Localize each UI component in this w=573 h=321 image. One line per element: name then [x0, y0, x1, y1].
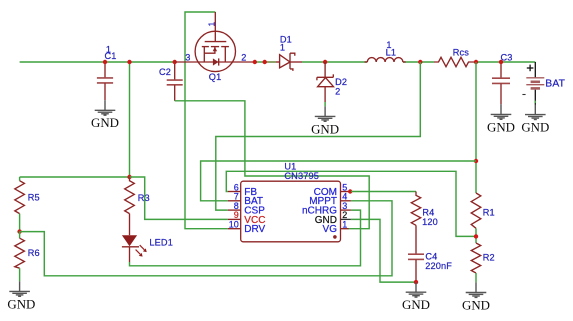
junction COM pin	[348, 189, 352, 193]
svg-text:120: 120	[422, 217, 438, 227]
Q1 main line	[175, 61, 255, 63]
wire L1 to Rcs	[403, 61, 434, 63]
junction rail L1/Rcs	[418, 60, 422, 64]
Q1 channel segments	[202, 46, 209, 48]
Q1 gate plate	[205, 41, 227, 43]
resistor R3	[125, 177, 135, 214]
diode D2 (schottky to GND)	[317, 62, 334, 106]
svg-text:Q1: Q1	[209, 72, 222, 82]
svg-text:220nF: 220nF	[425, 261, 452, 271]
pin 10 DRV	[228, 220, 266, 236]
wire LED cathode to nCHRG	[130, 210, 361, 266]
svg-text:GND: GND	[402, 298, 430, 312]
wire BAT pin to battery sense node	[201, 161, 476, 201]
LED LED1	[122, 214, 147, 262]
pin 8 CSP	[228, 201, 265, 217]
LED1 arrows	[140, 245, 145, 250]
junction R3 top	[127, 175, 131, 179]
junction rail Rcs/C3	[474, 60, 478, 64]
capacitor C2	[167, 62, 183, 101]
pin 2 GND	[315, 210, 351, 226]
wire rail down to R1 (battery sense)	[475, 62, 477, 193]
pin 7 BAT	[228, 192, 263, 208]
capacitor C3	[492, 62, 510, 104]
svg-text:R4: R4	[422, 208, 434, 218]
svg-text:GND: GND	[521, 121, 549, 135]
svg-text:3: 3	[185, 53, 190, 63]
junction dot near VG	[333, 235, 337, 239]
svg-text:CN3795: CN3795	[284, 171, 319, 181]
resistor Rcs	[434, 57, 476, 66]
svg-text:2: 2	[335, 87, 340, 97]
ground R6	[7, 281, 35, 311]
svg-text:R3: R3	[138, 193, 150, 203]
ground C4	[402, 282, 430, 312]
svg-text:GND: GND	[91, 116, 119, 130]
junction R5/R6	[17, 229, 21, 233]
wire R5 top from R3 node	[20, 176, 130, 178]
wire CSP pin to L1/Rcs junction	[216, 62, 420, 210]
Q1 body diode	[213, 58, 219, 65]
wire D1 cathode to L1	[302, 61, 367, 63]
junction rail x264.7	[263, 60, 267, 64]
transistor Q1	[175, 12, 255, 72]
inductor L1	[365, 58, 406, 62]
IC U1 box	[241, 181, 341, 242]
svg-text:C1: C1	[105, 51, 117, 61]
junction BAT net	[474, 159, 478, 163]
wire C2 bottom to VG pin (over IC)	[175, 101, 370, 229]
wire rail right of Q1 to D1	[255, 61, 265, 63]
svg-text:C4: C4	[425, 251, 437, 261]
wire main input rail left segment	[20, 61, 175, 63]
junction rail x254.8	[253, 60, 257, 64]
svg-text:L1: L1	[386, 48, 397, 58]
battery BAT	[522, 62, 544, 105]
wire FB pin to divider	[226, 171, 476, 236]
resistor R2	[471, 243, 480, 282]
pin 4 MPPT	[309, 192, 351, 208]
junction C1 rail	[103, 60, 107, 64]
battery minus sign	[522, 94, 525, 96]
resistor R5	[15, 177, 25, 232]
svg-text:GND: GND	[487, 120, 515, 134]
battery plus sign	[527, 67, 534, 69]
junction C3 rail	[499, 60, 503, 64]
svg-text:R6: R6	[28, 248, 40, 258]
svg-text:BAT: BAT	[545, 79, 565, 90]
junction rail D2	[323, 60, 327, 64]
pin 6 FB	[228, 182, 258, 198]
junction R1/R2 FB	[474, 234, 478, 238]
svg-text:1: 1	[206, 22, 216, 27]
svg-text:VG: VG	[323, 224, 338, 235]
Q1 gate lead	[214, 12, 216, 41]
ground BAT	[521, 105, 549, 135]
svg-text:DRV: DRV	[244, 224, 265, 235]
Q1 circle	[195, 31, 235, 71]
pin 9 VCC	[228, 210, 266, 226]
junction rail x129	[127, 60, 131, 64]
svg-text:1: 1	[280, 43, 285, 53]
svg-text:Rcs: Rcs	[453, 48, 470, 58]
svg-text:LED1: LED1	[149, 238, 173, 248]
wire Rcs to battery	[476, 61, 535, 63]
wire VCC pin to R3 node	[130, 177, 228, 219]
svg-text:D2: D2	[335, 77, 347, 87]
resistor R1	[471, 193, 481, 243]
Q1 right stub	[224, 47, 226, 62]
svg-text:R2: R2	[483, 253, 495, 263]
pin 3 nCHRG	[302, 201, 351, 217]
svg-text:GND: GND	[7, 297, 35, 311]
junction C2 rail	[173, 60, 177, 64]
svg-text:GND: GND	[311, 122, 339, 136]
resistor R6	[15, 232, 25, 282]
wire DRV loop to Q1 gate	[185, 12, 228, 229]
capacitor C1	[97, 62, 113, 100]
ground R2	[462, 282, 490, 312]
pin 1 VG	[323, 220, 349, 236]
junction C4 bottom	[414, 280, 418, 284]
wire MPPT divider tap	[20, 201, 392, 276]
svg-text:U1: U1	[284, 161, 296, 171]
svg-text:R1: R1	[483, 208, 495, 218]
svg-text:1: 1	[342, 220, 347, 230]
ground C1	[91, 100, 119, 130]
svg-text:2: 2	[241, 52, 246, 62]
wire GND pin to C4 bottom	[351, 219, 416, 282]
svg-text:R5: R5	[28, 193, 40, 203]
Q1 substrate	[204, 47, 215, 53]
svg-text:GND: GND	[462, 298, 490, 312]
ground D2	[311, 106, 339, 136]
svg-text:C2: C2	[159, 67, 171, 77]
wire rail to R3 top	[129, 62, 131, 177]
diode D1 (schottky)	[276, 53, 302, 71]
ground C3	[487, 104, 515, 134]
wire COM to R4	[351, 191, 416, 193]
Q1 left stub	[203, 47, 205, 62]
svg-text:10: 10	[229, 220, 239, 230]
resistor R4	[411, 192, 420, 254]
capacitor C4	[408, 254, 424, 282]
pin 5 COM	[314, 182, 351, 198]
